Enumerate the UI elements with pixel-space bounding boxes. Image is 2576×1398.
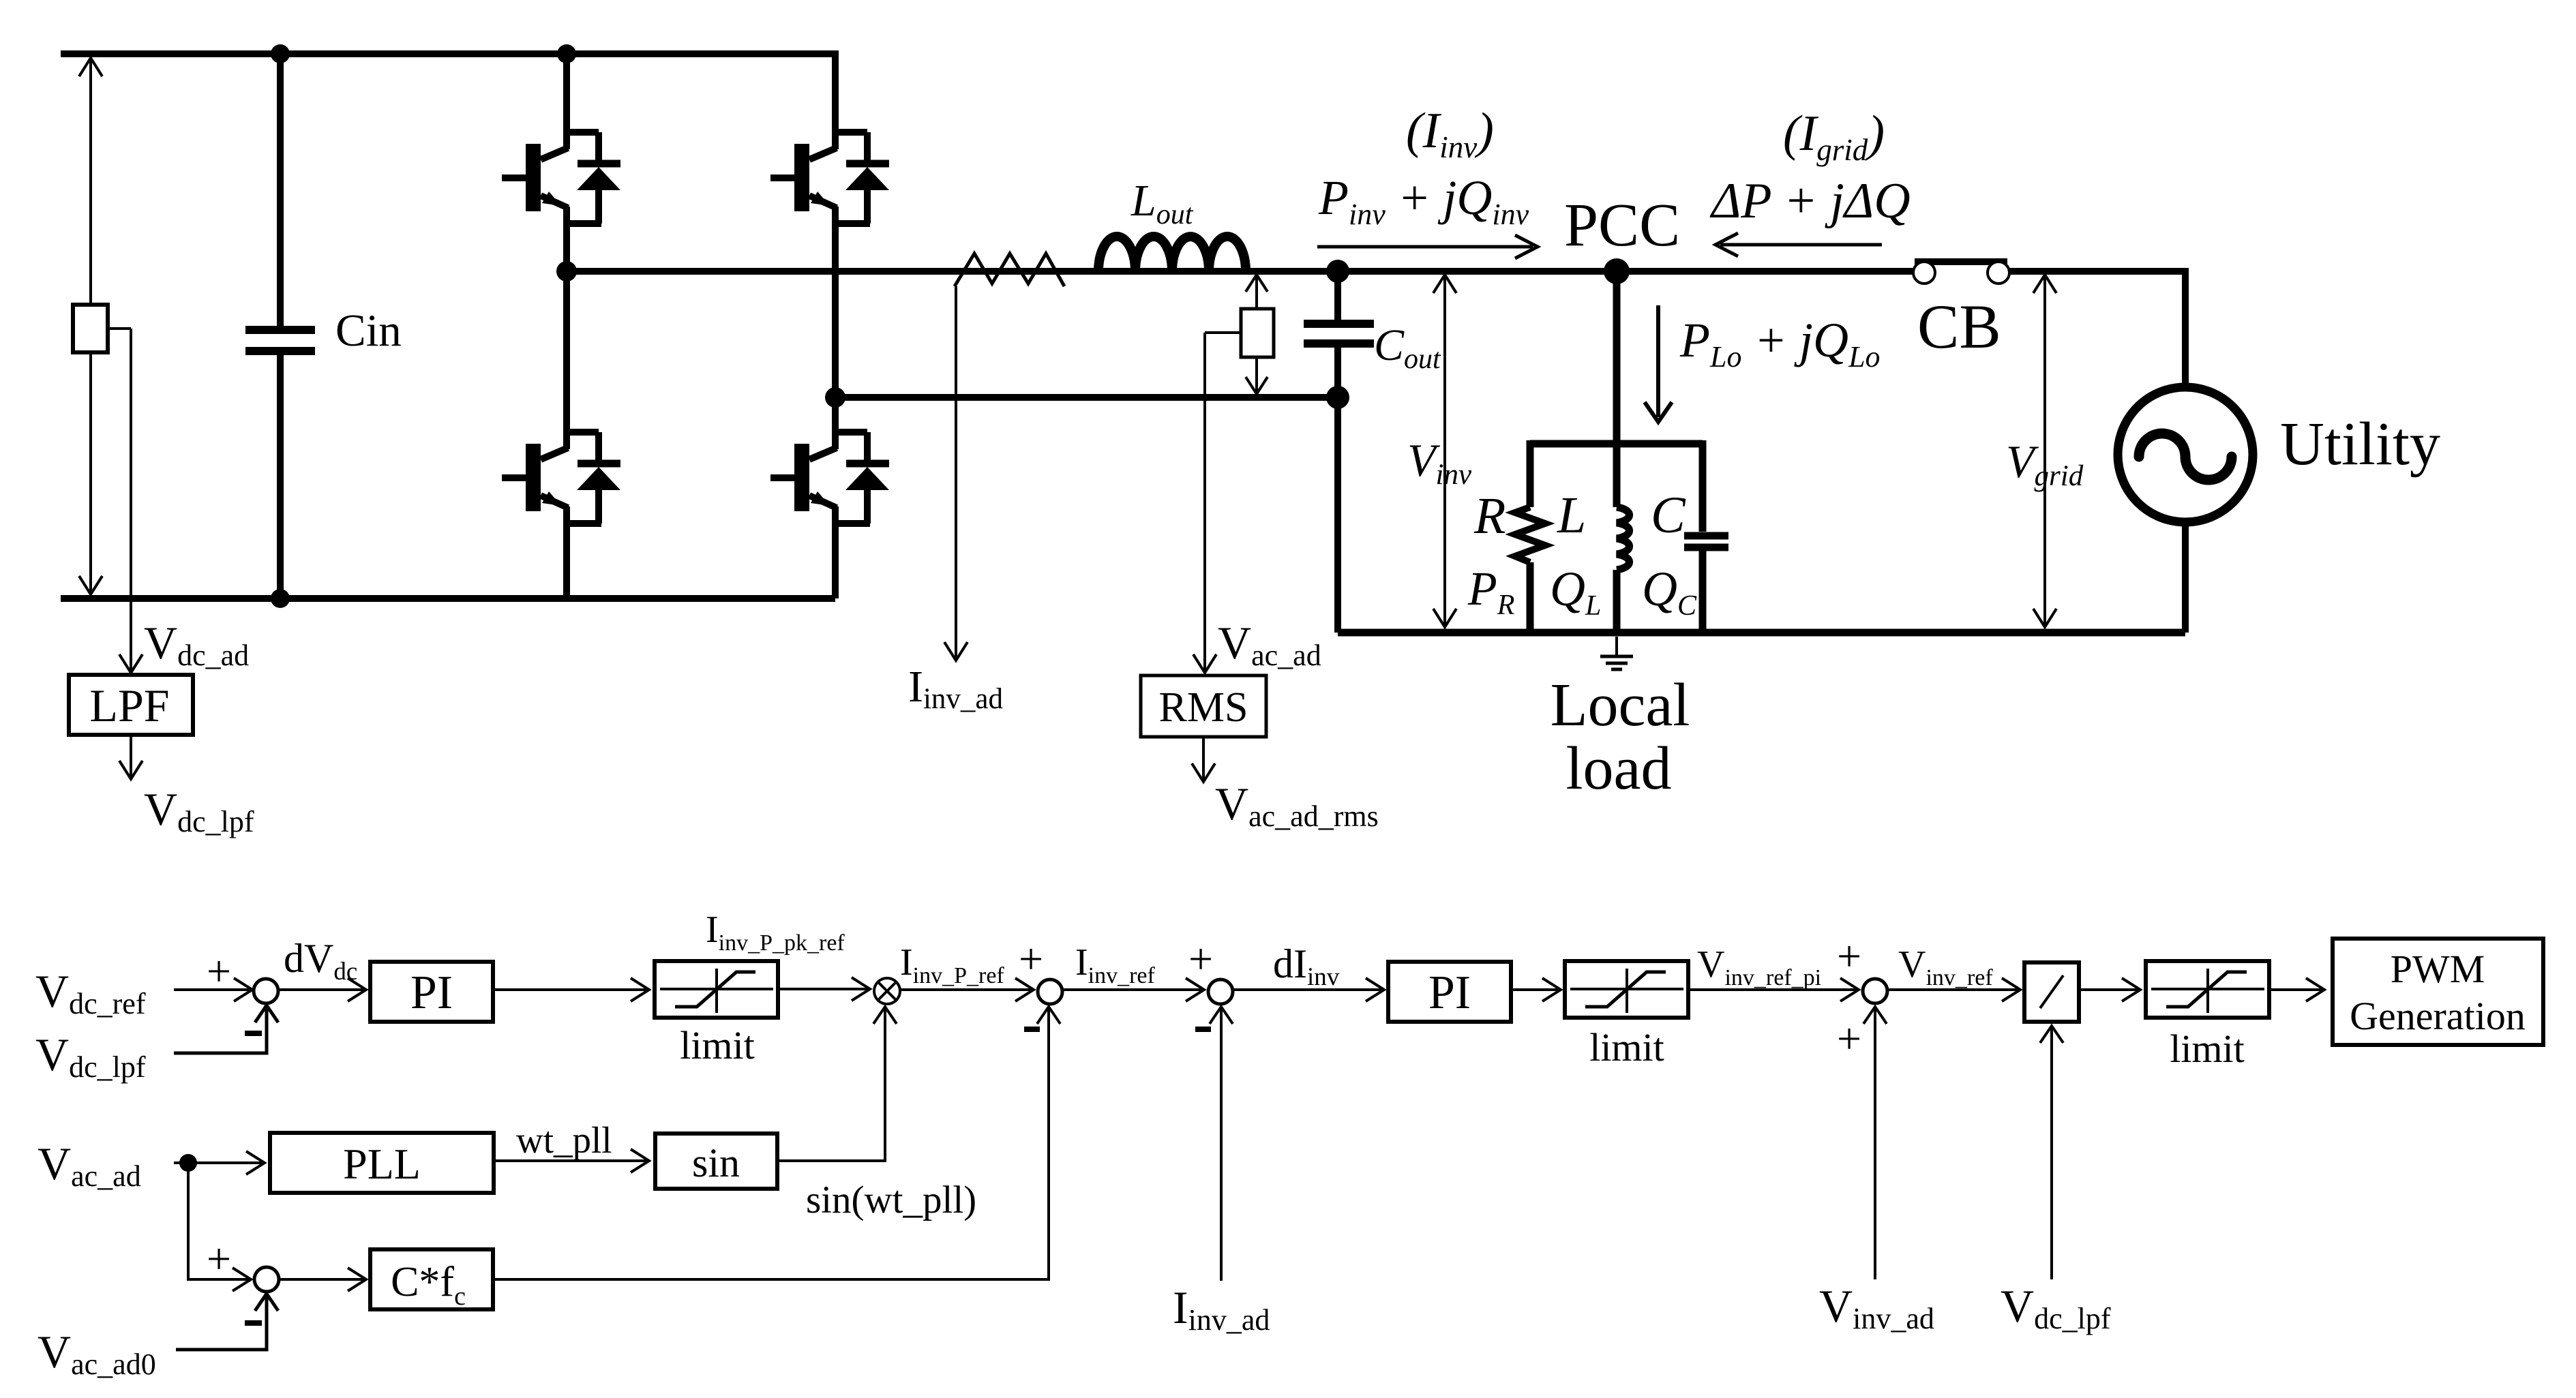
label plus below summer 4 [1837,1014,1861,1063]
svg-text:L: L [1557,487,1586,544]
Vdc voltage sensor box [73,305,108,352]
transistor Q1 (leg A top IGBT with diode) [502,127,620,228]
wire: PLL to sin [494,1149,649,1172]
limiter block 2 [1565,961,1688,1018]
label (Igrid) [1783,106,1885,167]
current sensor sawtooth [955,254,1064,286]
label dIinv [1273,941,1340,991]
summer 4 [1863,979,1887,1003]
label PR [1467,563,1514,621]
label plus at summer 3 [1188,934,1213,983]
wire: Vac_ad sense line [1193,333,1241,673]
wire: LPF output arrow [119,735,143,779]
svg-text:RMS: RMS [1159,684,1248,731]
svg-text:limit: limit [2170,1027,2245,1071]
wire: limit 2 to summer 4 [1688,978,1859,1001]
C*fc block [370,1249,493,1311]
node A: leg A midpoint [556,261,577,282]
summer 1 [254,979,278,1003]
label plus at summer 2 [1019,934,1043,983]
arrow: PLo load power [1645,305,1672,422]
svg-text:sin(wt_pll): sin(wt_pll) [806,1179,976,1221]
label Local load [1551,671,1690,802]
wire: summer 2 to summer 3 [1062,978,1204,1001]
svg-text:PLL: PLL [343,1140,421,1188]
label Iinv_ref [1075,941,1156,988]
wire: Iinv_ad feedback into summer 3 [1210,1007,1233,1281]
wire: DC bus positive rail [61,50,835,57]
label Vac_ad_rms [1215,778,1379,833]
label C [1651,487,1686,544]
arrow: grid power flow (leftward) [1716,233,1882,256]
label Vinv [1407,434,1472,491]
wire: PI to limit 1 [493,978,649,1001]
label minus at summer 5 [245,1320,262,1326]
wire: Vinv_ad feedforward into summer 4 [1863,1007,1887,1279]
label minus at summer 2 [1024,1027,1040,1032]
label QL [1550,562,1601,622]
svg-text:wt_pll: wt_pll [516,1119,612,1161]
wire: Vdc_ad sense line [119,329,143,673]
PWM Generation block [2333,939,2543,1045]
wire: Vdc_lpf feedback into summer 1 [174,1005,278,1053]
label Vdc_lpf control input [2001,1280,2111,1335]
svg-text:PWM: PWM [2391,947,2485,991]
label Iinv_ad control input [1173,1281,1270,1337]
node: Vac_ad branch dot [179,1154,197,1172]
svg-text:C: C [1651,487,1686,544]
svg-text:PCC: PCC [1564,192,1680,259]
wire: summer 4 to divider [1887,978,2020,1001]
node B: leg B midpoint [825,387,845,408]
arrow: Pinv power flow [1317,235,1538,258]
summer 5 [254,1267,279,1292]
node: Cout bottom junction [1326,386,1349,409]
svg-text:limit: limit [1589,1025,1664,1069]
svg-text:+: + [1837,1014,1861,1063]
label minus at summer 1 [245,1031,262,1036]
Vinv measurement double arrow [1433,275,1456,627]
wire: phase leg B [832,50,839,598]
transistor Q4 (leg B bottom IGBT with diode) [770,427,889,528]
resistor R branch [1515,440,1545,636]
label plus at summer 1 [207,947,231,995]
svg-text:+: + [1837,932,1861,980]
label L [1557,487,1586,544]
summer 3 [1208,979,1233,1004]
svg-text:+: + [207,947,231,995]
label Iinv_ad [908,662,1003,715]
label Vinv_ref_pi [1697,943,1821,990]
label Cin [335,305,402,356]
label Vac_ad0 [38,1326,156,1381]
transistor Q3 (leg B top IGBT with diode) [770,127,889,228]
label R [1473,487,1506,545]
svg-text:limit: limit [680,1023,755,1067]
wire: PI 2 to limit 2 [1511,978,1561,1001]
wire: CB to grid corner [2009,268,2185,275]
wire: phase leg A [563,54,570,598]
wire: summer 5 to C*fc [279,1268,366,1291]
RMS block [1141,675,1266,737]
wire: limit 1 to multiplier [778,977,870,1001]
label minus at summer 3 [1195,1027,1211,1032]
wire: summer 1 to PI [278,978,366,1001]
wire: inverter AC output top [567,268,1913,275]
wire: inverter AC output bottom [835,394,1338,401]
svg-text:R: R [1473,487,1506,545]
label Utility [2280,410,2440,478]
wire: C*fc output to summer 2 [493,1007,1060,1279]
label Iinv_P_ref [900,941,1004,988]
summer 2 [1038,979,1062,1004]
label Vdc_ad [144,617,249,672]
wire: Vdc_lpf into divider [2040,1026,2063,1279]
wire: sensor output stub [108,327,131,330]
label plus at summer 5 [207,1234,231,1283]
label Cout [1374,320,1441,375]
label (Iinv) [1406,103,1494,164]
wire: Vac_ad0 into summer 5 [176,1294,278,1350]
wire: source to bottom bus [2182,522,2189,633]
label limit 2 [1589,1025,1664,1069]
voltage sensor double arrow at Cout [1246,275,1268,394]
wire: summer 3 to PI 2 [1233,978,1384,1001]
label Iinv_P_pk_ref [706,909,845,956]
label limit 3 [2170,1027,2245,1071]
Vdc measurement double arrow [79,58,102,594]
capacitor Cout [1304,271,1374,633]
label QC [1642,562,1697,622]
label Vinv_ref [1898,943,1993,990]
svg-text:LPF: LPF [89,680,169,731]
wire: Vac_ad to PLL [174,1151,265,1174]
label Vgrid [2006,436,2084,492]
limiter block 1 [655,961,778,1018]
svg-text:+: + [1019,934,1043,983]
label Vac_ad input [38,1138,141,1193]
node: Cin top junction [271,44,290,63]
wire: local load top bus [1530,440,1703,448]
label Pinv + jQinv [1318,170,1529,231]
Vac voltage sensor box [1241,309,1274,357]
Vgrid measurement double arrow [2033,275,2056,627]
svg-text:+: + [1188,934,1213,983]
svg-text:CB: CB [1917,292,2001,361]
label PCC [1564,192,1680,259]
label Vinv_ad [1819,1280,1934,1335]
node PCC [1604,258,1630,284]
limiter block 3 [2146,961,2269,1018]
node: Cout top junction [1326,260,1349,283]
label wt_pll [516,1119,612,1161]
PLL block [270,1133,494,1193]
transistor Q2 (leg A bottom IGBT with diode) [502,427,620,528]
svg-text:+: + [207,1234,231,1283]
wire: grid right side down to source [2182,268,2189,389]
label limit 1 [680,1023,755,1067]
divider block [2024,962,2079,1022]
svg-text:ΔP + jΔQ: ΔP + jΔQ [1709,173,1911,229]
PI block 1 [370,962,493,1022]
svg-text:PI: PI [1428,967,1471,1019]
utility AC source [2118,387,2253,522]
capacitor C branch [1684,440,1728,636]
wire: multiplier to summer 2 [900,978,1034,1001]
wire: Vdc_ref input arrow [174,978,252,1001]
wire: bottom bus of load and grid loop [1338,629,2185,637]
svg-text:sin: sin [692,1140,740,1185]
wire: PCC to local load [1613,271,1621,507]
label plus at summer 4 [1837,932,1861,980]
svg-text:PI: PI [410,967,453,1019]
ground [1600,637,1633,669]
label Vdc_lpf [144,783,254,838]
label Vdc_lpf input [35,1029,146,1084]
svg-text:Generation: Generation [2350,994,2526,1038]
label sin(wt_pll) [806,1179,976,1221]
multiplier [874,978,900,1004]
label Vac_ad [1218,617,1321,672]
label Lout [1130,176,1194,230]
label CB [1917,292,2001,361]
node: Cin bottom junction [271,589,290,608]
svg-text:Cin: Cin [335,305,402,356]
label Vdc_ref [35,965,146,1020]
circuit breaker CB [1913,262,2009,284]
label dP + jdQ [1709,173,1911,229]
wire: Iinv_ad sense line [944,286,968,660]
wire: sin output into multiplier [777,1007,897,1161]
wire: DC bus negative rail [61,595,835,602]
inductor Lout [1098,237,1246,271]
wire: divider to limit 3 [2079,978,2140,1001]
capacitor Cin [245,54,315,598]
svg-text:load: load [1566,735,1672,802]
svg-text:Utility: Utility [2280,410,2440,478]
label dVdc [284,936,357,986]
label PLo + jQLo [1679,313,1881,374]
wire: Vac_ad branch down to summer 5 [188,1163,251,1291]
svg-text:Local: Local [1551,671,1690,739]
wire: limit 3 to PWM [2269,978,2324,1001]
sin block [655,1134,777,1189]
PI block 2 [1388,962,1511,1022]
wire: RMS output arrow [1192,737,1215,782]
inductor L branch [1617,507,1630,636]
LPF block [69,675,193,735]
node: leg A top junction [557,44,576,63]
